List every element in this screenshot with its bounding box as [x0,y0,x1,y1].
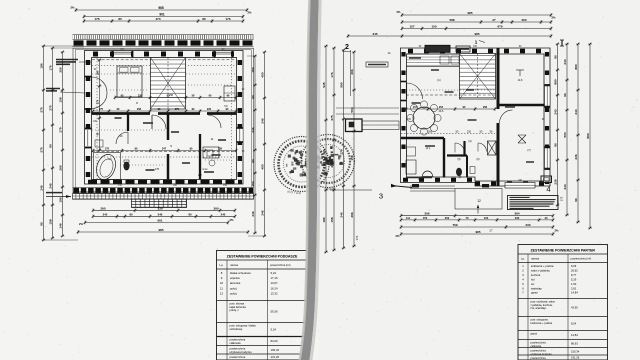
svg-text:96: 96 [563,93,567,97]
svg-text:2: 2 [345,44,349,51]
svg-text:17,16: 17,16 [271,276,278,280]
svg-text:173: 173 [355,235,359,240]
right plan: wall studs top [408,49,546,54]
svg-text:965: 965 [158,6,164,10]
svg-text:26,62: 26,62 [571,268,578,272]
svg-text:275: 275 [175,108,180,111]
svg-text:258: 258 [137,108,142,111]
svg-text:8,77: 8,77 [571,273,577,277]
svg-text:(1): (1) [437,78,440,82]
left plan: top dimension row 965 [76,9,247,11]
svg-text:588: 588 [449,18,454,22]
right plan: bottom dim row 206/364 [401,215,553,217]
left plan: extra room dashes [110,89,148,91]
svg-text:całkowita: całkowita [531,344,542,348]
svg-text:96: 96 [554,143,558,147]
right plan: tiny annotations [409,57,421,59]
left plan: interior wall vertical x168 [167,114,170,140]
svg-text:40: 40 [545,216,548,220]
svg-text:12: 12 [220,291,224,295]
svg-text:8,04: 8,04 [571,322,577,326]
svg-text:4: 4 [546,185,550,194]
svg-text:14,8: 14,8 [518,79,523,82]
left plan: bottom dim row 240/80 [93,215,235,217]
right plan: right top marker I [561,40,563,46]
svg-text:kotłownia + pralnia: kotłownia + pralnia [531,264,554,268]
svg-text:679: 679 [497,25,502,29]
svg-text:90: 90 [251,159,255,163]
right plan: left wall door arc [407,83,423,99]
left plan: interior wall vertical x128 bath [127,114,129,131]
svg-text:150: 150 [467,131,472,134]
svg-text:80: 80 [188,212,192,216]
svg-text:14,84: 14,84 [571,291,578,295]
right plan: internal dim row y109 [406,108,495,110]
svg-text:5,29: 5,29 [571,277,577,281]
left plan: top eaves black dash row [74,40,254,45]
svg-text:230: 230 [515,216,520,220]
svg-text:240: 240 [103,212,108,216]
svg-text:275: 275 [40,107,44,112]
svg-text:290: 290 [521,18,526,22]
svg-text:150: 150 [251,181,255,186]
svg-text:salon z jadalnią: salon z jadalnią [531,268,550,272]
svg-text:pokój: pokój [230,286,237,290]
svg-text:użytkowa budynku: użytkowa budynku [230,350,253,354]
svg-text:985: 985 [475,230,480,234]
right plan: interior walls bottom-left [401,137,444,140]
svg-text:246: 246 [261,118,265,123]
left plan: internal dim row y97.5 [115,97,236,99]
svg-text:246: 246 [261,210,265,215]
svg-text:901: 901 [157,219,162,223]
svg-text:(7): (7) [527,148,530,152]
svg-text:258: 258 [483,106,488,109]
right plan: X-hatched shaft [488,141,497,155]
svg-text:90: 90 [49,144,53,148]
svg-text:hol, wiatrołap:: hol, wiatrołap: [531,306,547,310]
svg-text:296: 296 [350,212,354,217]
svg-text:59,36: 59,36 [271,310,278,314]
svg-text:176: 176 [94,17,99,21]
svg-text:2%: 2% [552,16,556,20]
svg-text:80: 80 [118,17,122,21]
right plan: garage separation wall [497,48,500,109]
svg-text:176: 176 [330,72,334,77]
left plan: bed top-left room [117,66,142,97]
right plan: garage top room wall [498,104,549,107]
left plan: door arc right room [208,115,221,128]
right plan: top dim row 588/27/290 [402,21,551,23]
svg-text:236: 236 [218,148,223,151]
svg-text:104: 104 [484,216,489,220]
right plan: chimney block left outside [346,119,363,132]
svg-text:43,95: 43,95 [571,306,578,310]
right plan: terrace below [455,189,502,210]
svg-text:powierzchnia (m²): powierzchnia (m²) [571,257,592,261]
svg-text:ZESTAWIENIE POWIERZCHNI PODDAS: ZESTAWIENIE POWIERZCHNI PODDASZE [227,254,298,258]
svg-text:14,84: 14,84 [571,333,578,337]
svg-text:kuchnia: kuchnia [531,273,541,277]
svg-text:2%: 2% [555,229,559,233]
svg-text:70: 70 [466,216,469,220]
left plan: top dimension row 176/80/473/80/176 [84,20,243,22]
svg-text:Lp.: Lp. [521,257,525,261]
svg-text:96: 96 [554,55,558,59]
svg-text:150: 150 [423,216,428,220]
svg-text:191,26: 191,26 [571,356,580,360]
right plan: spadek leader arrow [391,186,412,188]
svg-text:(4): (4) [468,139,471,143]
svg-text:użytkowa budynku: użytkowa budynku [531,352,553,356]
svg-text:158: 158 [49,219,53,224]
right plan: left small blocks [366,62,388,67]
svg-text:266: 266 [59,67,63,72]
svg-text:łazienka: łazienka [230,281,241,285]
left plan: right vertical dim lines [254,56,256,233]
left plan: desk right room [203,147,219,158]
svg-text:12: 12 [477,199,481,203]
svg-text:266: 266 [350,69,354,74]
right plan: dashed ceiling line [406,94,495,96]
page fold divider [300,0,319,360]
left plan: door arc mid [152,115,166,129]
svg-text:345: 345 [372,32,377,36]
svg-text:206: 206 [424,212,429,216]
left plan: attic dashed knee-wall lines [92,59,236,61]
svg-text:186: 186 [40,63,44,68]
left plan: dim extension lines [44,45,85,47]
left plan: wall studs left [86,60,91,178]
left plan: top eaves fine hatch band [73,34,254,36]
svg-text:769: 769 [452,223,457,227]
svg-text:247: 247 [162,148,167,151]
left area table ZESTAWIENIE POWIERZCHNI PODDASZE [217,251,308,360]
svg-text:364: 364 [514,212,519,216]
left plan: bottom dim row 985 [78,231,248,233]
right plan: outer wall outline [401,48,551,186]
svg-text:(6): (6) [477,158,480,161]
svg-text:279: 279 [59,127,63,132]
left plan: internal tiny annotation dashes [143,122,153,124]
svg-text:158: 158 [59,97,63,102]
svg-text:11: 11 [220,286,223,290]
left plan: interior wall vertical x200 [199,134,201,180]
right plan: top dim row 157/150/679 [402,28,551,30]
svg-text:176: 176 [49,65,53,70]
svg-text:131,26: 131,26 [271,355,280,359]
svg-text:901: 901 [159,13,165,17]
left plan: staircase [151,58,186,110]
right plan: note box [508,196,559,210]
svg-text:246: 246 [251,211,255,216]
svg-text:kotłownia + pralnia: kotłownia + pralnia [531,321,553,325]
right plan: wall studs left [401,52,405,180]
svg-text:290: 290 [213,206,218,210]
svg-text:246: 246 [340,212,344,217]
right plan: garage top room symbol [516,69,524,71]
svg-text:258: 258 [169,94,174,97]
right plan: kitchen appliances [440,56,449,64]
svg-text:266: 266 [59,165,63,170]
svg-text:503: 503 [563,132,567,137]
svg-text:105,34: 105,34 [271,348,280,352]
svg-text:(5): (5) [458,158,461,161]
left plan: left leader note text [56,59,78,61]
left plan: door arc bath [116,132,128,144]
svg-text:ZESTAWIENIE POWIERZCHNI PARTER: ZESTAWIENIE POWIERZCHNI PARTER [531,248,596,252]
right plan: black marks below bottom wall [412,184,419,188]
left plan: wall studs right [238,60,243,178]
right plan: garage door bottom [505,183,535,189]
svg-text:hol: hol [531,277,535,281]
left plan: left vertical dim lines [43,46,45,240]
right plan: top dim row 345/985 [348,35,551,37]
svg-text:13,67: 13,67 [271,281,278,285]
left plan: interior mid wall [92,112,151,115]
svg-text:243: 243 [563,59,567,64]
left plan: extra dotted grid lines [92,73,150,75]
left plan: wall studs top [93,52,236,57]
svg-text:wiatrołap: wiatrołap [531,286,542,290]
left plan: outer wall rects [85,51,244,185]
svg-text:157: 157 [409,25,414,29]
svg-text:pokój, z: pokój, z [230,308,240,312]
svg-text:275: 275 [330,115,334,120]
left plan: bathtub [93,152,119,183]
left plan: bottom dim row 290/330/290 [93,209,235,211]
right plan: garage floor drain X [518,135,526,143]
left plan: top dimension row 901 [84,16,243,18]
svg-text:240: 240 [221,212,226,216]
svg-text:175: 175 [155,168,160,171]
svg-text:2%: 2% [396,234,400,238]
right plan: wall studs bottom main [403,178,475,182]
svg-text:945: 945 [322,82,326,87]
svg-text:196: 196 [59,197,63,202]
svg-text:450: 450 [261,72,265,77]
left plan: sink [95,140,103,147]
right plan: garage door arc from hall [500,110,513,123]
svg-text:236: 236 [554,179,558,184]
round stamp right page [302,135,355,192]
svg-text:985: 985 [474,32,479,36]
right plan: doors bottom rooms [455,143,465,153]
svg-text:10: 10 [220,281,224,285]
left plan: eaves overhang outline [73,48,254,193]
svg-text:146: 146 [59,223,63,228]
left plan: toilet [124,162,130,171]
svg-text:275: 275 [40,147,44,152]
left plan: internal dim row y150.5 [93,150,236,152]
svg-text:2%: 2% [230,218,234,222]
right plan: left vertical dim lines [325,46,327,252]
right plan: bottom dim row 985 [401,233,553,235]
svg-text:243: 243 [554,109,558,114]
left plan: bottom dim row 901 [85,222,228,224]
svg-text:Lp.: Lp. [220,263,224,267]
svg-text:158: 158 [330,217,334,222]
left plan: right wall window gap [237,129,243,143]
svg-text:150: 150 [431,25,436,29]
right plan: bottom dim row small [401,219,553,221]
svg-text:243: 243 [574,109,578,114]
svg-text:330: 330 [157,206,162,210]
svg-text:246: 246 [49,183,53,188]
right area table ZESTAWIENIE POWIERZCHNI PARTER [518,245,608,360]
svg-text:150: 150 [251,67,255,72]
svg-text:890: 890 [574,64,578,69]
right plan: right vertical dim lines [557,44,559,205]
svg-text:96: 96 [574,198,578,202]
right plan: kitchen counter hatch [407,54,463,67]
right plan: porch steps below wall [410,185,455,187]
svg-text:nazwa: nazwa [531,257,540,261]
svg-text:186: 186 [322,217,326,222]
svg-text:2,81: 2,81 [571,286,577,290]
left plan: bathroom outline [94,153,121,180]
right plan: kitchen window block above wall [425,45,450,52]
svg-text:173: 173 [560,196,564,201]
svg-text:230: 230 [525,223,530,227]
svg-text:pokój: pokój [230,291,237,295]
svg-text:890: 890 [586,133,590,138]
left plan: left wall double door arcs [85,76,92,78]
svg-text:985: 985 [158,228,163,232]
right plan: left horizontal leader lines [330,189,372,191]
svg-text:2%: 2% [397,10,401,14]
left plan: right wall window blocks [237,127,244,129]
svg-text:473: 473 [155,17,160,21]
left plan: top wall window gaps [114,51,131,57]
svg-text:246: 246 [251,127,255,132]
svg-text:azjenka: azjenka [230,276,240,280]
svg-text:226: 226 [207,108,212,111]
svg-text:80: 80 [129,212,133,216]
svg-text:nazwa: nazwa [230,263,239,267]
svg-text:290: 290 [100,206,105,210]
svg-text:985: 985 [467,11,472,15]
svg-text:86,63: 86,63 [571,342,578,346]
svg-text:890: 890 [554,79,558,84]
right plan: right wall windows [545,86,551,106]
right plan: boiler room appliances [406,160,416,174]
left plan: left wall window gap [85,130,91,146]
svg-text:90: 90 [251,95,255,99]
left plan: internal vertical dim x99.5 [99,60,101,150]
right plan: inner wall outline [407,54,545,181]
right plan: stairs [460,54,496,100]
svg-text:200: 200 [445,216,450,220]
svg-text:5,24: 5,24 [271,328,277,332]
svg-text:garaż: garaż [531,332,538,336]
right plan: top dim row 985 [402,14,551,16]
svg-text:247: 247 [198,174,203,177]
svg-text:275: 275 [97,99,100,104]
svg-text:80: 80 [202,17,206,21]
svg-text:111: 111 [406,216,411,220]
right plan: wall studs right [545,52,549,184]
svg-text:SPRK: SPRK [202,169,208,171]
right plan: internal dashed dim row y133.5 [401,133,495,135]
svg-text:246: 246 [40,185,44,190]
right plan: bottom dim row 769/230 [401,226,553,228]
svg-text:klatka schodowa: klatka schodowa [230,271,251,275]
svg-text:450: 450 [261,164,265,169]
svg-text:238: 238 [138,95,143,98]
left plan: wardrobe right wall [224,86,235,101]
svg-text:186: 186 [97,70,100,75]
left plan: bottom fine crosshatch band [73,194,254,200]
left plan: bottom left leader arrow [46,196,71,198]
svg-text:275: 275 [49,105,53,110]
svg-text:3: 3 [379,192,383,201]
svg-text:2%: 2% [79,222,83,226]
svg-text:2%: 2% [248,11,252,15]
svg-text:590: 590 [340,82,344,87]
svg-text:13,32: 13,32 [271,291,278,295]
right plan: dining table [413,107,435,129]
svg-text:1,50: 1,50 [571,282,577,286]
left plan: wall studs bottom [88,180,242,184]
svg-text:252: 252 [439,106,444,109]
svg-text:346: 346 [158,212,163,216]
svg-text:176: 176 [225,17,230,21]
svg-text:całkowita: całkowita [230,341,242,345]
svg-text:9,06: 9,06 [571,264,577,268]
right plan: wc fixtures [456,168,462,176]
svg-text:26,6: 26,6 [439,110,444,113]
svg-text:schodowej: schodowej [230,327,243,331]
round stamp left page [274,137,329,196]
svg-text:garaż: garaż [531,291,538,295]
svg-text:27: 27 [492,18,496,22]
right plan: wall studs bottom right [475,182,546,186]
left plan: bottom eaves black dash row [74,188,254,193]
svg-text:5,24: 5,24 [271,271,277,275]
svg-text:170: 170 [105,148,110,151]
right plan: chimney symbol bottom wall [541,176,552,183]
left plan: bottom center brick band [132,199,187,207]
svg-text:96: 96 [40,222,44,226]
left plan: internal dim row y111 [93,110,236,112]
svg-text:243: 243 [563,184,567,189]
left plan: left small note 2 [46,88,60,90]
svg-text:150,34: 150,34 [571,349,580,353]
svg-text:236: 236 [574,154,578,159]
svg-text:2%: 2% [71,6,75,10]
svg-text:84,60: 84,60 [271,339,278,343]
svg-text:16,24: 16,24 [271,286,278,290]
svg-text:powierzchnia [m²]: powierzchnia [m²] [270,263,291,267]
